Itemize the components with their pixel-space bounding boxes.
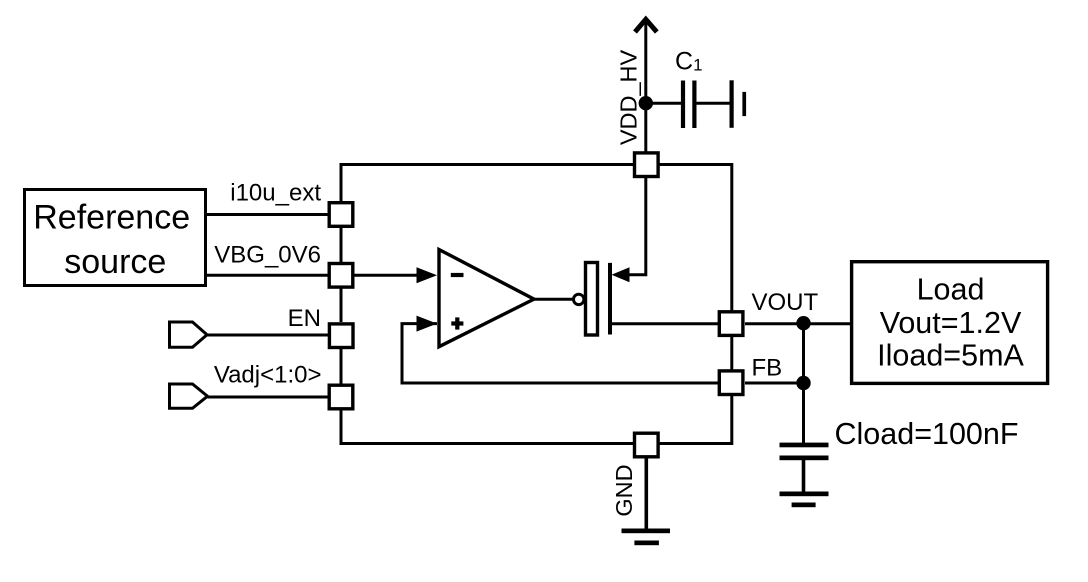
wire Cload to ground bbox=[802, 460, 806, 492]
pin square FB bbox=[719, 371, 743, 395]
capacitor Cload bbox=[780, 443, 829, 448]
arrowhead transistor source bbox=[612, 267, 630, 282]
pin square VOUT bbox=[719, 312, 743, 336]
wire top right from VDD pin to right bus bbox=[660, 165, 732, 312]
svg-text:VBG_0V6: VBG_0V6 bbox=[214, 242, 321, 269]
input port Vadj bbox=[170, 384, 208, 408]
wire right bus VOUT to FB bbox=[730, 337, 733, 370]
arrowhead minus input bbox=[417, 267, 438, 283]
wire transistor drain to VOUT pin bbox=[611, 322, 719, 325]
junction dot FB bbox=[796, 376, 810, 390]
svg-text:Vout=1.2V: Vout=1.2V bbox=[880, 306, 1022, 340]
transistor M1 gate plate bbox=[586, 263, 598, 336]
junction dot VOUT bbox=[796, 316, 810, 330]
svg-text:i10u_ext: i10u_ext bbox=[230, 180, 321, 207]
pin square i10u_ext bbox=[329, 203, 353, 227]
svg-text:VDD_HV: VDD_HV bbox=[616, 50, 642, 146]
svg-text:Load: Load bbox=[917, 273, 985, 307]
wire GND pin down bbox=[644, 457, 648, 530]
pin square EN bbox=[329, 324, 353, 348]
svg-text:source: source bbox=[64, 243, 166, 281]
svg-text:FB: FB bbox=[752, 355, 783, 382]
op-amp minus sign bbox=[451, 273, 464, 277]
svg-text:C1: C1 bbox=[675, 48, 703, 76]
svg-text:Vadj<1:0>: Vadj<1:0> bbox=[214, 361, 322, 388]
wire i10u_ext from Reference source to pin bbox=[205, 213, 330, 216]
svg-text:Iload=5mA: Iload=5mA bbox=[877, 338, 1024, 372]
wire EN port to pin bbox=[207, 334, 330, 337]
Reference source box bbox=[25, 190, 206, 286]
arrowhead plus input bbox=[417, 316, 438, 332]
svg-text:Reference: Reference bbox=[33, 198, 190, 236]
wire op-amp output to gate bubble bbox=[534, 298, 573, 301]
Load box bbox=[852, 262, 1048, 384]
capacitor C1 bbox=[681, 81, 685, 129]
input port EN bbox=[170, 322, 208, 347]
wire VBG_0V6 from Reference source to pin bbox=[205, 274, 330, 277]
pin square Vadj bbox=[329, 385, 353, 409]
wire Vadj port to pin bbox=[208, 396, 331, 399]
wire C1 to ground bbox=[696, 102, 730, 105]
op-amp plus sign bbox=[451, 321, 463, 325]
wire right bus FB to bottom bbox=[660, 396, 732, 444]
transistor M1 channel bbox=[608, 263, 612, 335]
svg-text:GND: GND bbox=[611, 464, 637, 516]
wire VBG pin to op-amp minus input bbox=[354, 274, 420, 277]
pin square GND bbox=[635, 433, 659, 457]
svg-text:EN: EN bbox=[288, 305, 321, 332]
op-amp U1 triangle bbox=[439, 250, 534, 347]
wire FB pin to junction bbox=[745, 382, 804, 385]
ground (rotated) at C1 bbox=[730, 80, 734, 128]
wire VOUT pin to Load bbox=[745, 322, 852, 325]
svg-text:Cload=100nF: Cload=100nF bbox=[835, 417, 1019, 451]
pin square VBG_0V6 bbox=[329, 264, 353, 288]
wire VOUT junction down to Cload bbox=[802, 323, 805, 444]
ground symbol GND bbox=[622, 529, 671, 534]
wire left bus vertical bbox=[341, 165, 634, 444]
wire feedback to op-amp plus input bbox=[402, 324, 719, 383]
wire VDD to C1 bbox=[646, 102, 682, 105]
ground below Cload bbox=[780, 492, 829, 497]
pin square VDD_HV bbox=[635, 153, 659, 177]
transistor M1 gate bubble bbox=[574, 294, 584, 304]
power VDD_HV arrow bbox=[644, 19, 647, 152]
wire VDD pin down to transistor source bbox=[628, 178, 646, 275]
svg-text:VOUT: VOUT bbox=[752, 289, 819, 316]
junction dot VDD / C1 bbox=[639, 96, 653, 110]
